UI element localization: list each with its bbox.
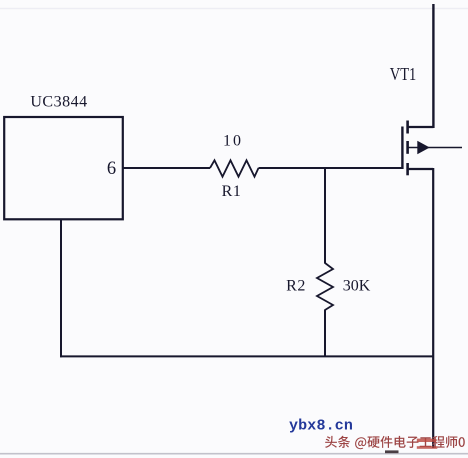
watermark banner toutiao text (325, 436, 465, 449)
transistor VT1 source channel segment (406, 163, 409, 175)
svg-text:30K: 30K (343, 277, 371, 294)
watermark red strike over GongCheng (417, 439, 436, 442)
svg-text:ybx8.cn: ybx8.cn (289, 417, 353, 434)
wire R2 bottom to bus (324, 310, 326, 358)
wire R1 to gate of VT1 (259, 167, 403, 169)
transistor VT1 drain channel segment (406, 121, 409, 134)
transistor VT1 source stub (409, 168, 434, 170)
watermark dark dash (385, 450, 399, 453)
wire UC3844 bottom down (60, 220, 62, 358)
resistor R1 (210, 160, 259, 176)
transistor VT1 body channel segment (406, 141, 409, 154)
resistor R2 (317, 263, 333, 310)
svg-text:R2: R2 (286, 277, 306, 294)
transistor VT1 body lead (409, 147, 463, 149)
svg-text:VT1: VT1 (390, 64, 417, 84)
wire drain up (432, 4, 434, 128)
node junction R2 tap (324, 167, 326, 264)
wire source down (432, 168, 434, 448)
watermark red underline (417, 446, 438, 449)
svg-text:6: 6 (107, 159, 116, 179)
transistor VT1 drain stub (409, 126, 434, 128)
transistor VT1 MOSFET gate bar (401, 127, 403, 170)
svg-text:10: 10 (223, 133, 243, 150)
wire bottom bus (60, 355, 434, 357)
svg-text:UC3844: UC3844 (30, 94, 87, 111)
wire pin6 to R1 (123, 167, 210, 169)
IC U1 UC3844 box (4, 117, 123, 219)
svg-text:R1: R1 (222, 183, 242, 200)
transistor VT1 body arrow (417, 141, 429, 154)
